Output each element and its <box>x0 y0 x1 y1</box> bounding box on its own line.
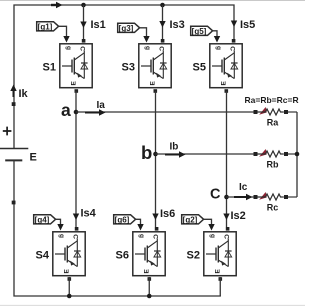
wire: phase B vertical S3 emitter to S6 collector <box>152 91 158 227</box>
node neutral junction at Rb <box>295 152 300 157</box>
label Is2 <box>231 210 246 222</box>
Ik annotation arrow <box>10 85 16 98</box>
label E <box>30 152 37 164</box>
battery positive port <box>12 102 16 106</box>
wire: g6 to S6 gate <box>136 219 144 230</box>
svg-text:Is1: Is1 <box>91 19 106 31</box>
Ib annotation arrow <box>165 151 186 157</box>
svg-text:S3: S3 <box>122 62 135 74</box>
node: top bus junction to S1 <box>81 3 86 8</box>
resistor Rc <box>254 192 298 200</box>
label b <box>141 142 152 163</box>
node b junction <box>153 152 158 157</box>
battery E short plate <box>5 159 22 161</box>
label Ik <box>19 88 29 100</box>
svg-text:Rb: Rb <box>267 160 279 170</box>
label Is4 <box>81 208 97 220</box>
label Ra <box>267 118 279 128</box>
label Ib <box>170 142 179 153</box>
IGBT S2 <box>204 227 236 281</box>
svg-text:Is3: Is3 <box>170 19 185 31</box>
node: bottom bus junction S4 <box>67 294 72 299</box>
bottom screenshot border <box>0 304 305 306</box>
node: top bus junction to S3 <box>160 3 165 8</box>
from tag g1 <box>37 22 59 32</box>
node c junction <box>224 195 229 200</box>
wire: phase A vertical S1 emitter to S4 collector <box>73 91 79 227</box>
wire: g4 to S4 gate <box>56 219 64 230</box>
Ia annotation arrow <box>85 109 106 115</box>
label S6 <box>116 250 129 262</box>
svg-text:C: C <box>210 187 221 203</box>
wire: g3 to S3 gate <box>140 28 150 43</box>
label S3 <box>122 62 135 74</box>
IGBT S3 <box>139 39 171 93</box>
wire: phase B horizontal to Rb <box>156 153 254 155</box>
svg-text:S1: S1 <box>43 62 56 74</box>
resistor Rb <box>254 149 298 157</box>
svg-text:S4: S4 <box>36 250 50 262</box>
wire: phase A horizontal to Ra <box>76 111 254 113</box>
svg-text:Ra: Ra <box>267 118 279 128</box>
node: bottom bus junction S6 <box>147 294 152 299</box>
Ic annotation arrow <box>234 194 253 200</box>
svg-text:Ib: Ib <box>170 142 179 153</box>
from tag g3 <box>118 23 140 33</box>
svg-text:S6: S6 <box>116 250 129 262</box>
from tag g5 <box>191 26 213 36</box>
svg-text:[g2]: [g2] <box>183 215 198 224</box>
label Ia <box>97 100 106 111</box>
wire: bus drop to S1 collector with Is1 arrow <box>80 5 86 39</box>
label S4 <box>36 250 50 262</box>
wire: neutral bus right side <box>296 112 298 197</box>
svg-text:Rc: Rc <box>267 203 279 213</box>
label Ra=Rb=Rc=R <box>245 95 299 105</box>
IGBT S6 <box>133 227 165 281</box>
svg-text:S5: S5 <box>193 62 206 74</box>
label C <box>210 187 221 203</box>
from tag g6 <box>114 215 136 225</box>
wire: g5 to S5 gate <box>213 31 221 43</box>
svg-text:[g5]: [g5] <box>192 27 207 36</box>
wire: bus drop to S5 collector with Is5 arrow <box>231 21 237 28</box>
battery negative port <box>12 201 16 205</box>
svg-text:[g1]: [g1] <box>38 22 53 31</box>
svg-text:Is5: Is5 <box>240 19 255 31</box>
svg-text:[g6]: [g6] <box>115 215 130 224</box>
label Is3 <box>170 19 185 31</box>
from tag g2 <box>182 215 204 225</box>
label Is6 <box>160 208 175 220</box>
IGBT S1 <box>60 39 92 93</box>
label Ic <box>239 182 248 193</box>
from tag g4 <box>34 215 56 225</box>
label S1 <box>43 62 56 74</box>
svg-text:Ik: Ik <box>19 88 29 100</box>
label Is1 <box>91 19 106 31</box>
wire: bus drop to S3 collector with Is3 arrow <box>159 5 165 39</box>
svg-text:Ic: Ic <box>239 182 248 193</box>
label S5 <box>193 62 206 74</box>
arrow on top bus <box>51 2 63 8</box>
svg-text:[g4]: [g4] <box>35 215 50 224</box>
label Rb <box>267 160 279 170</box>
wire: battery negative down to bottom bus <box>14 160 221 296</box>
svg-text:Ia: Ia <box>97 100 106 111</box>
label Rc <box>267 203 279 213</box>
svg-text:S2: S2 <box>187 250 200 262</box>
svg-text:Is6: Is6 <box>160 208 175 220</box>
node a junction <box>74 110 79 115</box>
top screenshot border <box>0 0 305 2</box>
wire: S6 emitter to bottom bus <box>148 277 150 296</box>
IGBT S4 <box>53 227 85 281</box>
wire: S2 emitter to bottom bus <box>219 277 221 296</box>
svg-text:E: E <box>30 152 37 164</box>
resistor Ra <box>254 107 298 115</box>
svg-text:a: a <box>61 100 71 120</box>
svg-text:Ra=Rb=Rc=R: Ra=Rb=Rc=R <box>245 95 299 105</box>
label a <box>61 100 71 120</box>
wire: top DC bus <box>14 5 234 148</box>
wire: phase C horizontal to Rc <box>227 196 254 198</box>
wire: g1 to S1 gate <box>59 26 70 42</box>
svg-text:Is2: Is2 <box>231 210 246 222</box>
svg-text:b: b <box>141 142 152 163</box>
battery E long plate <box>0 148 28 150</box>
IGBT S5 <box>210 39 242 93</box>
svg-text:[g3]: [g3] <box>119 24 134 33</box>
label Is5 <box>240 19 255 31</box>
wire: S4 emitter to bottom bus <box>68 277 70 296</box>
wire: g2 to S2 gate <box>204 219 215 230</box>
label S2 <box>187 250 200 262</box>
plus sign of source E <box>3 127 12 136</box>
wire: phase C vertical S5 emitter to S2 collector <box>223 91 229 227</box>
svg-text:Is4: Is4 <box>81 208 97 220</box>
